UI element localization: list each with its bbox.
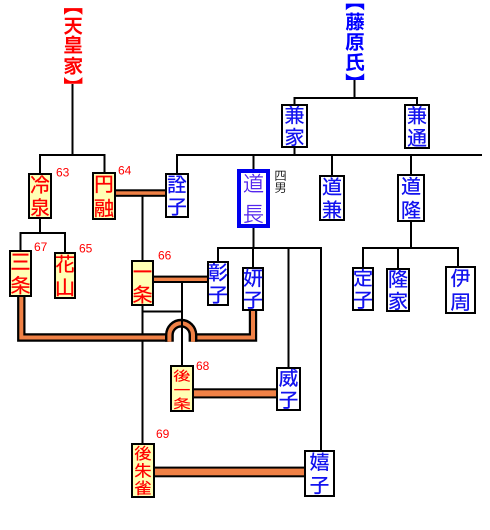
wire: 冷泉 stem down [39,219,41,234]
fujiwara 道長 (highlighted) [239,171,268,226]
wire: sibling line 冷泉/円融 [39,154,106,156]
wire: long drop to 威子 [288,247,290,367]
wire: 道長 stem down [253,228,255,249]
wire: 円融×詮子 child drop to 一条 [142,196,144,260]
fujiwara 嬉子 [305,451,334,496]
emperor 花山 65 [55,253,75,298]
fujiwara 兼家 [282,105,307,147]
wire: 兼家 stem down [294,148,296,156]
fujiwara 道兼 [320,176,344,220]
wire: connector 一条 stem to marriage drop [143,311,183,313]
header 藤原氏 (Fujiwara clan) [346,4,365,80]
wire: drop to 彰子 [217,247,219,261]
emperor 一条 66 [132,261,153,305]
wire: drop to 円融 [104,154,106,172]
wire: drop to 定子 [362,247,364,267]
fujiwara 伊周 [446,267,475,313]
wire: drop to 道長 [253,154,255,169]
marriage 一条×彰子 [154,276,207,283]
header 天皇家 (imperial family) [64,8,82,84]
wire: sibling line children of 兼家 [176,154,482,156]
wire: 道隆 stem down [410,222,412,249]
wire: sibling line children of 道隆 [363,247,459,249]
wire: drop to 三条 [20,232,22,250]
wire: sibling line 三条/花山 [20,232,67,234]
wire: drop to 伊周 [457,247,459,267]
svg-text:66: 66 [158,249,172,263]
annotation 四男 (fourth son) [275,171,285,193]
wire: drop to 道隆 [410,154,412,174]
emperor 三条 67 [10,251,31,296]
fujiwara 道隆 [398,175,424,221]
marriage 後朱雀×嬉子 [155,467,304,478]
fujiwara 彰子 [208,262,228,305]
svg-text:63: 63 [56,166,70,180]
wire: drop to 隆家 [397,247,399,268]
svg-text:67: 67 [34,240,48,254]
wire: drop to 花山 [64,232,66,252]
marriage 三条×妍子 path with bridge [21,296,253,342]
fujiwara 兼通 [405,105,429,148]
marriage 円融×詮子 [116,189,165,197]
svg-text:64: 64 [118,164,132,178]
fujiwara 詮子 [166,174,188,217]
wire: sibling line 兼家/兼通 [294,97,419,99]
wire: drop to 詮子 [176,154,178,173]
fujiwara 隆家 [387,269,409,311]
marriage 後一条×威子 [194,388,276,398]
svg-text:65: 65 [79,242,93,256]
svg-text:68: 68 [196,359,210,373]
svg-text:69: 69 [156,427,170,441]
fujiwara 威子 [277,368,300,410]
fujiwara 定子 [353,268,373,310]
wire: 一条 stem down to 後朱雀 [142,306,144,443]
wire: long drop to 嬉子 [320,247,322,450]
wire: marriage 一条×彰子 drop to 後一条 (over bands) [181,283,183,365]
emperor 冷泉 63 [29,174,51,218]
wire: drop to 妍子 [252,247,254,267]
emperor 後朱雀 69 [132,444,154,497]
wire: 藤原氏 stem down [354,80,356,99]
wire: drop to 道兼 [331,154,333,175]
wire: drop to 兼家 [294,97,296,104]
emperor 円融 64 [93,173,115,219]
wire: drop to 冷泉 [39,154,41,173]
wire: sibling line children of 道長 [218,247,321,249]
fujiwara 妍子 [243,268,263,310]
wire: drop to 兼通 [416,97,418,104]
wire: 天皇家 stem down [72,84,74,156]
emperor 後一条 68 [171,366,193,411]
